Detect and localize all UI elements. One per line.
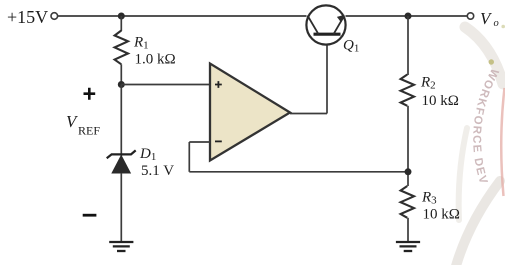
node D (R2/R3 divider): [405, 168, 412, 175]
node C (top of R2): [405, 13, 412, 20]
wire: R1 bottom lead: [120, 64, 122, 84]
op-amp U1: [210, 64, 290, 161]
wire: R3 bottom lead: [407, 218, 409, 242]
ground (right): [396, 242, 420, 251]
svg-text:R2: R2: [420, 75, 436, 92]
op-amp + pin mark: [215, 81, 222, 88]
svg-text:10 kΩ: 10 kΩ: [422, 93, 459, 109]
label + (VREF polarity): [84, 88, 96, 100]
svg-text:o: o: [494, 18, 499, 29]
svg-text:D1: D1: [139, 146, 156, 163]
wire: base drive vertical: [326, 35, 328, 114]
watermark band bottom-right: [456, 181, 500, 265]
watermark inner red arc: [501, 88, 504, 196]
watermark corner mark: [501, 25, 505, 29]
transistor Q1: [306, 5, 345, 44]
resistor R1: [115, 31, 128, 65]
wire: op-amp - input lead: [189, 141, 210, 143]
svg-text:R3: R3: [421, 190, 437, 207]
wire: op-amp output: [290, 113, 327, 115]
node A (top of R1): [118, 13, 125, 20]
zener diode D1: [107, 150, 136, 173]
wire: top rail right segment: [346, 15, 468, 17]
svg-text:R1: R1: [133, 35, 149, 52]
watermark band top-right: [465, 27, 503, 84]
svg-text:WORKFORCE DEV: WORKFORCE DEV: [470, 66, 500, 186]
op-amp - pin mark: [215, 140, 222, 142]
wire: zener top lead: [120, 85, 122, 157]
watermark band mid: [459, 128, 467, 220]
wire: feedback vertical: [188, 142, 190, 172]
wire: R2 bottom lead: [407, 106, 409, 186]
svg-text:1.0 kΩ: 1.0 kΩ: [135, 52, 176, 68]
wire: feedback bottom horizontal: [189, 171, 408, 173]
wire: top rail left segment: [58, 15, 307, 17]
wire: to op-amp + input: [121, 84, 210, 86]
svg-text:10 kΩ: 10 kΩ: [423, 207, 460, 223]
wire: R1 top lead: [120, 16, 122, 31]
wire: R2 top lead: [407, 16, 409, 75]
ground (left): [109, 242, 133, 251]
svg-text:5.1 V: 5.1 V: [141, 163, 174, 179]
resistor R3: [401, 186, 414, 218]
wire: zener bottom lead: [120, 173, 122, 242]
label - (VREF polarity): [83, 214, 97, 217]
svg-text:Q1: Q1: [343, 37, 359, 54]
node B (VREF node): [118, 81, 125, 88]
svg-text:REF: REF: [78, 124, 100, 138]
resistor R2: [401, 75, 414, 106]
terminal Vo: [467, 13, 473, 19]
watermark dot: [489, 59, 494, 64]
terminal +15V: [51, 13, 58, 20]
svg-text:+15V: +15V: [7, 7, 48, 27]
svg-text:V: V: [480, 9, 493, 28]
